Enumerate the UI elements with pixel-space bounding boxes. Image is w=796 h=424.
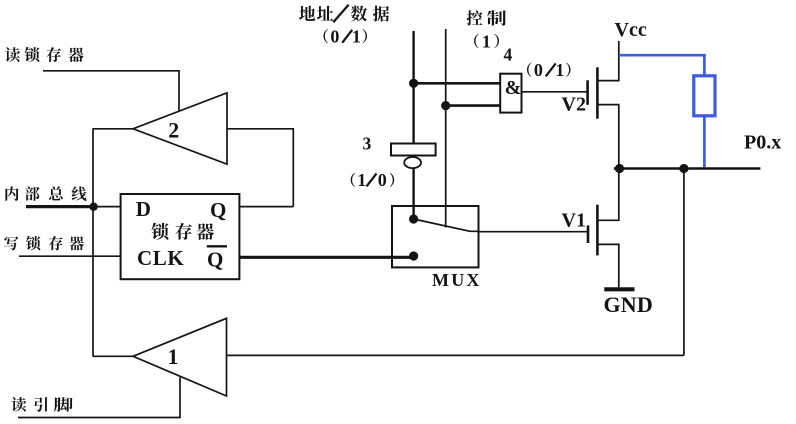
wire control line bbox=[445, 29, 447, 228]
latch box bbox=[121, 194, 240, 279]
buffer 1 (read pin tri-state) bbox=[133, 318, 227, 396]
transistor V2 drain lead bbox=[597, 41, 618, 81]
wire AND output to V2 gate bbox=[522, 91, 587, 93]
label 读引脚 (read pin) bbox=[11, 397, 72, 412]
wire buffer1 output to bus bbox=[93, 355, 133, 357]
resistor pull-up (blue) bbox=[694, 76, 715, 116]
wire buffer2 output to bus bbox=[93, 128, 133, 130]
transistor V1 drain lead bbox=[597, 169, 618, 221]
svg-text:CLK: CLK bbox=[137, 246, 184, 270]
MUX switch arm bbox=[414, 219, 470, 231]
svg-text:&: & bbox=[505, 77, 522, 99]
transistor V2 gate bar bbox=[586, 80, 589, 105]
wire write-latch to CLK bbox=[19, 255, 121, 257]
wire read-latch to buffer 2 bbox=[43, 71, 179, 112]
node internal-bus junction bbox=[89, 203, 97, 211]
svg-text:P0.x: P0.x bbox=[744, 132, 781, 154]
transistor V2 channel bbox=[596, 67, 599, 118]
svg-text:0: 0 bbox=[534, 60, 544, 80]
wire buffer1 input from pin bbox=[227, 354, 684, 356]
svg-text:V1: V1 bbox=[562, 210, 586, 232]
label 地址/数据 (address/data) bbox=[299, 6, 389, 22]
wire AND input 2 bbox=[446, 104, 501, 107]
wire feedback to buffer1 bbox=[683, 169, 685, 356]
wire Qbar output to MUX (thick) bbox=[239, 256, 413, 259]
label (0/1) addr bbox=[324, 26, 367, 46]
MUX box bbox=[392, 206, 479, 267]
svg-text:1: 1 bbox=[555, 60, 564, 80]
svg-text:Q: Q bbox=[207, 248, 223, 272]
wire buffer2 input from latch Q bbox=[227, 129, 293, 207]
svg-text:Vcc: Vcc bbox=[615, 19, 647, 41]
svg-text:1: 1 bbox=[357, 170, 366, 190]
wire MUX output to V1 gate bbox=[470, 230, 588, 232]
node feedback junction bbox=[679, 164, 688, 173]
transistor V1 source lead bbox=[597, 244, 618, 289]
node MUX input A bbox=[409, 214, 418, 223]
buffer 2 (read latch tri-state) bbox=[133, 93, 227, 164]
svg-text:3: 3 bbox=[363, 133, 372, 153]
label (1/0) bbox=[351, 170, 394, 190]
label 控制 (control) bbox=[467, 10, 506, 25]
transistor V2 source lead bbox=[597, 105, 618, 169]
svg-text:MUX: MUX bbox=[432, 270, 482, 290]
svg-text:2: 2 bbox=[168, 118, 179, 143]
wire address line upper bbox=[412, 31, 414, 144]
svg-text:GND: GND bbox=[604, 292, 654, 317]
wire P0.x line bbox=[614, 167, 761, 170]
svg-text:0: 0 bbox=[378, 170, 387, 190]
svg-text:V2: V2 bbox=[562, 94, 586, 116]
transistor V1 channel bbox=[596, 205, 599, 256]
label (1) bbox=[474, 31, 499, 51]
label 内部总线 (internal bus) bbox=[5, 186, 86, 201]
wire AND input 1 bbox=[414, 82, 501, 85]
inverter 3 bubble bbox=[404, 157, 421, 168]
AND gate 4 body bbox=[500, 74, 521, 113]
node V1 drain junction bbox=[615, 164, 624, 173]
wire D input bbox=[93, 206, 120, 208]
svg-text:D: D bbox=[136, 197, 151, 221]
svg-text:1: 1 bbox=[168, 344, 179, 369]
wire internal bus (thick) bbox=[26, 205, 93, 208]
inverter 3 body bbox=[391, 144, 436, 156]
node MUX input B bbox=[409, 251, 418, 260]
label 读锁存器 (read latch) bbox=[5, 47, 84, 62]
node addr-AND junction bbox=[409, 79, 418, 88]
wire vertical bus line bbox=[92, 129, 94, 356]
wire Q output bbox=[239, 206, 293, 208]
label (0/1) gate output bbox=[527, 60, 570, 80]
transistor V1 gate bar bbox=[587, 225, 590, 243]
svg-text:4: 4 bbox=[504, 45, 513, 65]
svg-text:Q: Q bbox=[210, 198, 226, 222]
svg-text:1: 1 bbox=[352, 26, 361, 46]
wire Vcc to resistor (blue) bbox=[619, 55, 705, 76]
label 写锁存器 (write latch) bbox=[4, 236, 84, 250]
wire address line lower bbox=[412, 168, 414, 220]
ground bar bbox=[604, 287, 634, 291]
node ctrl-AND junction bbox=[441, 101, 450, 110]
svg-text:0: 0 bbox=[330, 26, 340, 46]
wire resistor to P0.x (blue) bbox=[703, 116, 706, 168]
svg-text:1: 1 bbox=[482, 31, 491, 51]
label 锁存器 (latch) bbox=[151, 223, 213, 240]
wire read-pin line bbox=[18, 377, 180, 417]
